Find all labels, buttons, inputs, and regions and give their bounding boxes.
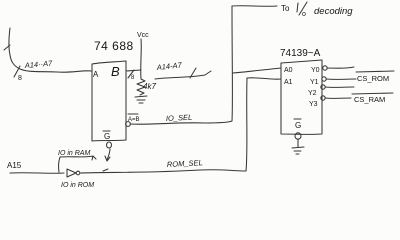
svg-text:Y0: Y0 bbox=[311, 67, 320, 74]
overline A=B bbox=[128, 113, 138, 115]
svg-text:IO in RAM: IO in RAM bbox=[58, 150, 90, 157]
node A=B output bubble bbox=[126, 122, 131, 127]
wire ROM_SEL riser to U2 A1 bbox=[246, 78, 247, 171]
wire Y1 to CS_ROM bbox=[326, 78, 356, 80]
svg-text:IO_SEL: IO_SEL bbox=[166, 113, 193, 123]
svg-text:CS_ROM: CS_ROM bbox=[357, 74, 389, 83]
wire A14..A7 bus into U1 bbox=[9, 28, 92, 72]
svg-text:74139~A: 74139~A bbox=[280, 48, 321, 59]
svg-text:decoding: decoding bbox=[314, 6, 353, 17]
wire U2 G to ground bbox=[297, 139, 299, 147]
ground (R1) bbox=[135, 96, 147, 103]
overline G (U2) bbox=[294, 118, 301, 120]
U2 output bubble Y2 bbox=[321, 85, 325, 89]
wire IO_SEL vertical riser bbox=[231, 6, 233, 121]
svg-text:A: A bbox=[93, 70, 99, 79]
svg-text:Y1: Y1 bbox=[310, 79, 319, 86]
annotation arrow IO in ROM (junction tick) bbox=[103, 169, 108, 171]
bus slash 8 (left) bbox=[14, 66, 20, 77]
wire tick on bus bbox=[4, 45, 10, 50]
svg-text:IO in ROM: IO in ROM bbox=[61, 182, 94, 189]
svg-text:Y2: Y2 bbox=[308, 90, 317, 97]
U2 output bubble Y1 bbox=[322, 77, 326, 81]
IC U1 74688 body bbox=[92, 61, 126, 141]
bus slash (out) bbox=[190, 68, 196, 78]
wire arrow from U1 G to A15 node bbox=[107, 149, 110, 160]
bus slash 8 (right) bbox=[128, 70, 134, 78]
wire ROM_SEL bbox=[80, 170, 246, 173]
svg-text:4k7: 4k7 bbox=[143, 82, 156, 91]
svg-text:Y3: Y3 bbox=[309, 101, 318, 108]
wire A15 line bbox=[10, 172, 64, 175]
wire Vcc stub to U1 B pins bbox=[126, 70, 141, 71]
wire Y2 out bbox=[325, 86, 354, 88]
wire to I/O decoding bbox=[232, 5, 277, 8]
svg-text:o: o bbox=[302, 11, 306, 18]
inverter (A15) bbox=[67, 169, 76, 177]
resistor R1 4k7 bbox=[137, 79, 145, 95]
power Vcc line bbox=[140, 39, 143, 79]
wire to U2 A0 bbox=[233, 68, 281, 73]
ground (U2) bbox=[292, 147, 304, 154]
svg-text:A1: A1 bbox=[284, 79, 293, 86]
svg-text:A0: A0 bbox=[284, 67, 293, 74]
U2 output bubble Y3 bbox=[321, 96, 325, 100]
wire A14-A7 bus out bbox=[155, 71, 211, 79]
IC U2 74139-A body bbox=[281, 60, 322, 134]
svg-text:Vcc: Vcc bbox=[137, 32, 149, 39]
svg-text:G: G bbox=[104, 132, 110, 141]
annotation arrow IO in RAM bbox=[59, 156, 96, 172]
svg-text:8: 8 bbox=[18, 75, 22, 82]
U2 G-bar enable bubble bbox=[295, 133, 301, 139]
svg-text:A15: A15 bbox=[7, 161, 22, 170]
wire IO_SEL bbox=[130, 121, 232, 124]
wire to U2 A1 bbox=[247, 78, 281, 79]
svg-text:CS_RAM: CS_RAM bbox=[354, 95, 385, 104]
I/O glyph (big) bbox=[297, 2, 307, 15]
svg-text:74 688: 74 688 bbox=[94, 39, 134, 53]
U2 output bubble Y0 bbox=[323, 66, 327, 70]
svg-text:To: To bbox=[281, 4, 290, 13]
svg-text:A=B: A=B bbox=[128, 117, 140, 123]
wire Y3 to CS_RAM bbox=[325, 97, 351, 99]
svg-text:ROM_SEL: ROM_SEL bbox=[167, 158, 203, 169]
wire Y0 out bbox=[327, 67, 354, 68]
U1 G-bar enable bubble bbox=[107, 142, 112, 148]
overline CS_RAM bbox=[352, 93, 393, 94]
overline G (U1) bbox=[103, 130, 110, 132]
svg-text:B: B bbox=[111, 64, 120, 79]
svg-text:G: G bbox=[295, 121, 301, 130]
overline CS_ROM bbox=[356, 71, 394, 72]
